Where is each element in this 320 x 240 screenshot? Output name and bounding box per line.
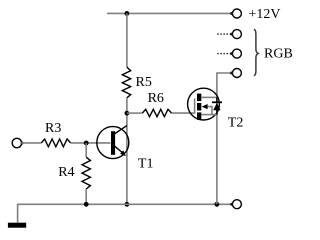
terminal G (232, 49, 241, 58)
transistor T2 (188, 88, 222, 120)
wire T2 drain elbow from RGB terminal (217, 73, 232, 204)
node emitter/rail junction (125, 202, 130, 207)
resistor R6 (142, 109, 171, 116)
transistor T1 (97, 126, 129, 159)
wire R6 to T2 gate (172, 112, 195, 114)
node R5/R6/T1 junction (125, 111, 130, 116)
resistor R5 (122, 67, 130, 98)
wire R4 bottom lead (85, 189, 87, 204)
wire dotted R channel (217, 33, 231, 35)
node top junction (125, 11, 130, 16)
svg-text:+12V: +12V (249, 7, 281, 22)
svg-text:R3: R3 (45, 121, 61, 136)
wire R3 to T1 base (71, 142, 111, 144)
terminal +12V (232, 9, 241, 18)
svg-text:R4: R4 (58, 165, 74, 180)
wire input to R3 (21, 142, 41, 144)
ground (8, 223, 26, 228)
wire R4 top lead (85, 143, 87, 157)
wire R5 bottom to collector rail (126, 98, 128, 205)
wire top +12V rail (107, 12, 232, 14)
node base/R4 junction (84, 141, 89, 146)
svg-text:R5: R5 (136, 75, 152, 90)
resistor R4 (82, 157, 90, 189)
brace RGB (254, 29, 258, 76)
node R4/rail junction (84, 202, 89, 207)
terminal input (12, 138, 21, 147)
resistor R3 (41, 139, 70, 147)
svg-text:T1: T1 (138, 157, 154, 172)
svg-text:T2: T2 (228, 116, 244, 131)
svg-text:R6: R6 (148, 91, 164, 106)
terminal R (232, 30, 241, 39)
wire R5 top lead (126, 13, 128, 67)
terminal bottom output (232, 200, 241, 209)
wire ground lead (17, 204, 19, 224)
node T2 source/rail junction (215, 202, 220, 207)
wire dotted G channel (217, 53, 231, 55)
wire bottom rail (18, 203, 232, 205)
terminal B (232, 69, 241, 78)
wire R6 left lead (127, 112, 142, 114)
svg-text:RGB: RGB (264, 47, 293, 62)
